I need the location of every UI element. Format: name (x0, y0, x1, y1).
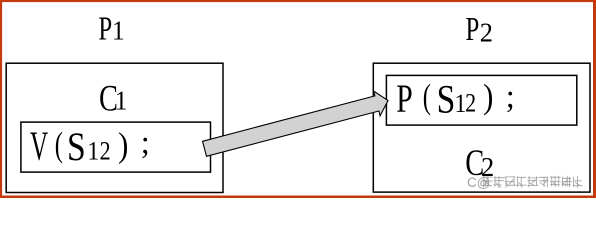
svg-text:1: 1 (115, 84, 128, 115)
svg-text:2: 2 (465, 90, 476, 118)
svg-text:1: 1 (87, 138, 99, 166)
svg-text:P: P (396, 77, 412, 121)
svg-text:P: P (98, 11, 112, 47)
svg-text:S: S (67, 124, 86, 168)
svg-text:2: 2 (100, 138, 111, 166)
svg-text:;: ; (141, 125, 150, 161)
svg-text:1: 1 (112, 15, 125, 46)
svg-text:;: ; (506, 79, 515, 115)
svg-text:2: 2 (480, 17, 493, 48)
svg-text:): ) (118, 127, 128, 165)
svg-text:(: ( (55, 125, 63, 164)
svg-text:S: S (437, 77, 456, 121)
svg-text:V: V (30, 125, 48, 170)
svg-text:): ) (483, 78, 493, 116)
svg-text:P: P (466, 11, 480, 47)
svg-text:(: ( (423, 77, 431, 116)
